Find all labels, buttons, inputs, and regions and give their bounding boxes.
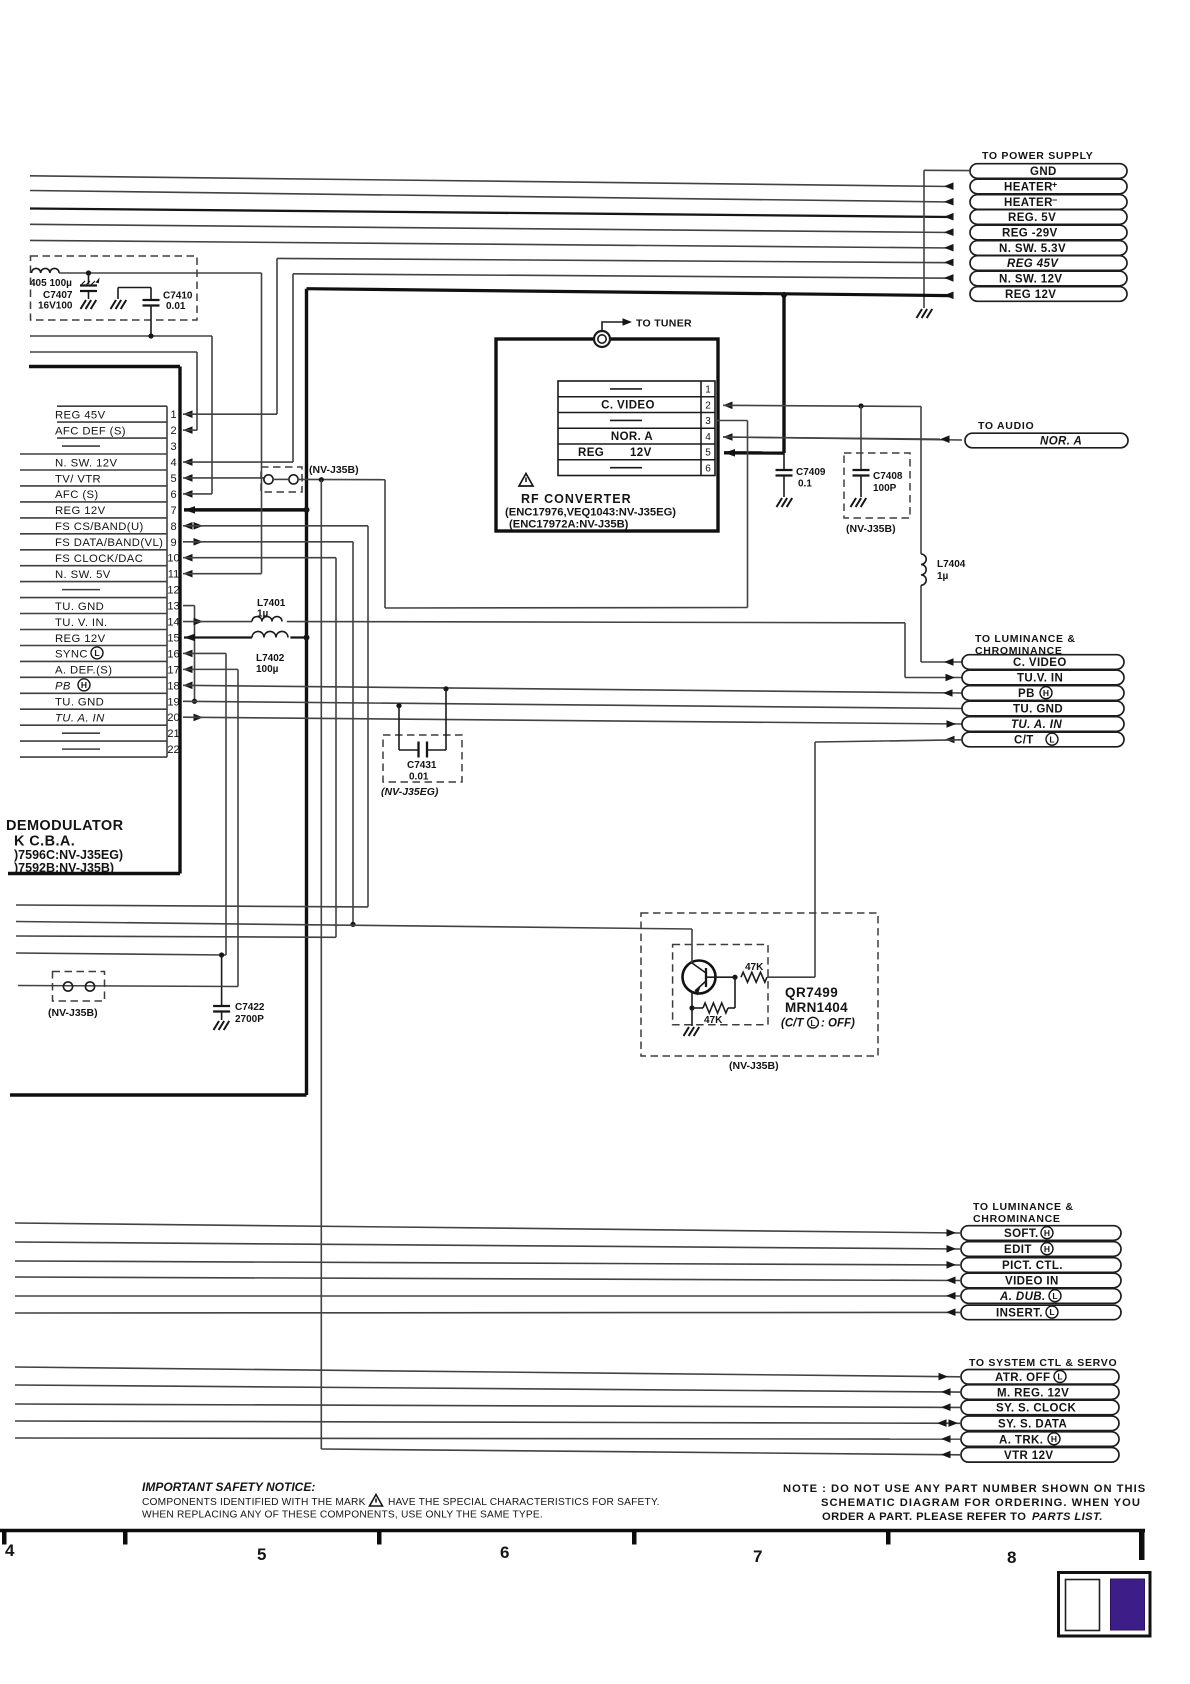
svg-text:REG 45V: REG 45V [1007,258,1059,270]
svg-text:7: 7 [753,1547,762,1566]
svg-text:RF CONVERTER: RF CONVERTER [521,492,632,506]
svg-text:NOTE : DO NOT USE ANY PART NUM: NOTE : DO NOT USE ANY PART NUMBER SHOWN … [783,1483,1146,1495]
svg-text:REG 12V: REG 12V [1005,289,1056,301]
svg-text:REG 45V: REG 45V [55,409,106,421]
svg-text:TO POWER SUPPLY: TO POWER SUPPLY [982,150,1093,162]
svg-text:1µ: 1µ [257,609,269,620]
svg-text:VTR 12V: VTR 12V [1004,1450,1053,1462]
svg-text:TU. A. IN: TU. A. IN [1011,719,1062,731]
svg-text:C7408: C7408 [873,471,903,482]
svg-text:TU. A. IN: TU. A. IN [55,713,105,725]
svg-text:(NV-J35B): (NV-J35B) [846,523,896,535]
svg-text:3: 3 [170,441,176,453]
svg-text:ORDER A PART. PLEASE REFER TO: ORDER A PART. PLEASE REFER TO [822,1511,1026,1523]
svg-text:REG -29V: REG -29V [1002,228,1058,240]
svg-text:L: L [1052,1291,1057,1301]
svg-text:16: 16 [167,648,179,660]
svg-text:6: 6 [170,489,176,501]
svg-text:13: 13 [167,601,179,613]
svg-text:TU.V. IN: TU.V. IN [1017,673,1063,685]
svg-text:HEATER: HEATER [1004,182,1053,194]
svg-text:TV/ VTR: TV/ VTR [55,473,101,485]
svg-text:PARTS LIST.: PARTS LIST. [1032,1511,1103,1523]
svg-text:1: 1 [170,409,176,421]
svg-text:47K: 47K [745,962,764,973]
svg-text:4: 4 [170,457,176,469]
svg-text:(NV-J35B): (NV-J35B) [729,1060,779,1072]
svg-text:0.01: 0.01 [409,772,429,783]
svg-text:H: H [1043,688,1049,698]
svg-text:C. VIDEO: C. VIDEO [601,400,655,412]
svg-text:TO TUNER: TO TUNER [636,318,692,330]
svg-text:L: L [811,1019,816,1028]
svg-text:C7431: C7431 [407,760,437,771]
svg-text:MRN1404: MRN1404 [785,1000,848,1015]
svg-text:4: 4 [5,1541,15,1560]
svg-text:H: H [1044,1244,1050,1254]
svg-text:N. SW. 5.3V: N. SW. 5.3V [999,243,1066,255]
svg-text:TO LUMINANCE &: TO LUMINANCE & [975,633,1076,645]
svg-text:N. SW. 12V: N. SW. 12V [55,457,117,469]
svg-text:1: 1 [705,385,711,396]
svg-text:5: 5 [170,473,176,485]
svg-text:FS CS/BAND(U): FS CS/BAND(U) [55,521,144,533]
svg-text:21: 21 [167,728,179,740]
svg-text:REG: REG [578,447,604,459]
svg-text:47K: 47K [704,1015,723,1026]
svg-text:TO SYSTEM CTL & SERVO: TO SYSTEM CTL & SERVO [969,1357,1117,1369]
svg-text:0.1: 0.1 [798,479,812,490]
svg-text:3: 3 [705,416,711,427]
svg-text:TU. GND: TU. GND [55,601,104,613]
svg-text:WHEN REPLACING ANY OF THESE CO: WHEN REPLACING ANY OF THESE COMPONENTS, … [142,1510,543,1521]
svg-text:16V100: 16V100 [38,300,73,311]
svg-text:DEMODULATOR: DEMODULATOR [6,818,124,834]
svg-text:8: 8 [1007,1548,1016,1567]
svg-text:VIDEO IN: VIDEO IN [1005,1276,1059,1288]
svg-text:−: − [1052,195,1058,205]
svg-text:(ENC17976,VEQ1043:NV-J35EG): (ENC17976,VEQ1043:NV-J35EG) [505,507,676,519]
svg-text:SY. S. CLOCK: SY. S. CLOCK [996,1403,1076,1415]
svg-text:A. DUB.: A. DUB. [999,1291,1046,1303]
svg-text:PICT. CTL.: PICT. CTL. [1002,1260,1063,1272]
svg-text:SYNC: SYNC [55,649,88,661]
svg-text:+: + [1052,180,1058,190]
svg-text:REG. 5V: REG. 5V [1008,212,1056,224]
svg-text:N. SW. 12V: N. SW. 12V [999,274,1062,286]
svg-text:C7422: C7422 [235,1002,265,1013]
svg-text:L7402: L7402 [256,653,285,664]
svg-text:4: 4 [705,432,711,443]
svg-text:NOR. A: NOR. A [1040,436,1082,448]
svg-text:A. TRK.: A. TRK. [999,1434,1043,1446]
svg-text:15: 15 [167,632,179,644]
svg-text:L: L [1049,734,1054,744]
svg-text:C/T: C/T [1014,735,1034,747]
svg-text:12V: 12V [630,447,652,459]
svg-text:L: L [1049,1307,1054,1317]
svg-text:FS CLOCK/DAC: FS CLOCK/DAC [55,553,143,565]
svg-text:HEATER: HEATER [1004,197,1053,209]
svg-text:TO LUMINANCE &: TO LUMINANCE & [973,1201,1074,1213]
svg-text:TU. GND: TU. GND [1013,704,1063,716]
svg-text:FS DATA/BAND(VL): FS DATA/BAND(VL) [55,537,163,549]
svg-text:7: 7 [170,505,176,517]
svg-text:TO AUDIO: TO AUDIO [978,420,1034,432]
svg-text:AFC DEF (S): AFC DEF (S) [55,425,126,437]
svg-text:L7401: L7401 [257,598,286,609]
svg-text:REG 12V: REG 12V [55,505,106,517]
svg-text:10: 10 [167,553,179,565]
svg-text:N. SW. 5V: N. SW. 5V [55,569,111,581]
svg-text:L: L [1057,1372,1062,1382]
svg-text:PB: PB [55,681,71,693]
svg-text:19: 19 [167,696,179,708]
svg-text:6: 6 [500,1543,509,1562]
svg-text:SY. S. DATA: SY. S. DATA [998,1419,1067,1431]
svg-text:(NV-J35B): (NV-J35B) [309,464,359,476]
svg-text:100µ: 100µ [256,664,279,675]
svg-text:100P: 100P [873,483,897,494]
svg-text:TU. GND: TU. GND [55,697,104,709]
svg-text:H: H [1051,1434,1057,1444]
svg-text:12: 12 [167,585,179,597]
svg-text:: OFF): : OFF) [821,1018,855,1030]
svg-text:2: 2 [170,425,176,437]
svg-text:PB: PB [1018,688,1035,700]
svg-text:REG 12V: REG 12V [55,633,106,645]
svg-text:L: L [94,648,99,658]
svg-text:18: 18 [167,680,179,692]
svg-text:14: 14 [167,617,179,629]
svg-text:6: 6 [705,463,711,474]
svg-text:20: 20 [167,712,179,724]
svg-text:SCHEMATIC DIAGRAM FOR ORDERING: SCHEMATIC DIAGRAM FOR ORDERING. WHEN YOU [821,1497,1141,1509]
svg-text:H: H [81,680,87,690]
svg-text:(NV-J35EG): (NV-J35EG) [381,786,439,798]
svg-text:17: 17 [167,664,179,676]
svg-text:9: 9 [170,537,176,549]
svg-text:SOFT.: SOFT. [1004,1228,1039,1240]
svg-text:)7592B:NV-J35B): )7592B:NV-J35B) [14,861,114,875]
svg-text:QR7499: QR7499 [785,985,838,1000]
svg-text:1µ: 1µ [937,571,949,582]
svg-text:5: 5 [257,1545,266,1564]
svg-text:EDIT: EDIT [1004,1244,1032,1256]
svg-text:CHROMINANCE: CHROMINANCE [973,1213,1061,1225]
svg-text:11: 11 [168,569,179,581]
svg-text:2: 2 [705,400,711,411]
svg-text:8: 8 [170,521,176,533]
svg-text:M. REG. 12V: M. REG. 12V [997,1387,1069,1399]
svg-text:(NV-J35B): (NV-J35B) [48,1007,98,1019]
svg-text:GND: GND [1030,166,1057,178]
svg-text:22: 22 [167,744,179,756]
svg-text:0.01: 0.01 [166,301,186,312]
svg-text:H: H [1044,1228,1050,1238]
svg-text:INSERT.: INSERT. [996,1308,1043,1320]
svg-text:NOR. A: NOR. A [611,431,653,443]
svg-text:)7596C:NV-J35EG): )7596C:NV-J35EG) [14,848,123,862]
svg-text:L7404: L7404 [937,559,966,570]
svg-text:(ENC17972A:NV-J35B): (ENC17972A:NV-J35B) [509,519,629,531]
svg-text:5: 5 [705,448,711,459]
svg-text:ATR. OFF: ATR. OFF [995,1372,1050,1384]
svg-text:AFC (S): AFC (S) [55,489,99,501]
svg-text:C7409: C7409 [796,467,826,478]
svg-text:A. DEF.(S): A. DEF.(S) [55,665,112,677]
svg-text:TU. V. IN.: TU. V. IN. [55,617,108,629]
svg-text:COMPONENTS IDENTIFIED WITH THE: COMPONENTS IDENTIFIED WITH THE MARK [142,1497,366,1508]
svg-text:C. VIDEO: C. VIDEO [1013,657,1067,669]
svg-text:HAVE THE SPECIAL CHARACTERISTI: HAVE THE SPECIAL CHARACTERISTICS FOR SAF… [388,1497,660,1508]
svg-text:405 100µ: 405 100µ [30,278,72,289]
svg-text:(C/T: (C/T [781,1018,804,1030]
svg-text:2700P: 2700P [235,1014,264,1025]
svg-text:IMPORTANT SAFETY NOTICE:: IMPORTANT SAFETY NOTICE: [142,1480,315,1494]
